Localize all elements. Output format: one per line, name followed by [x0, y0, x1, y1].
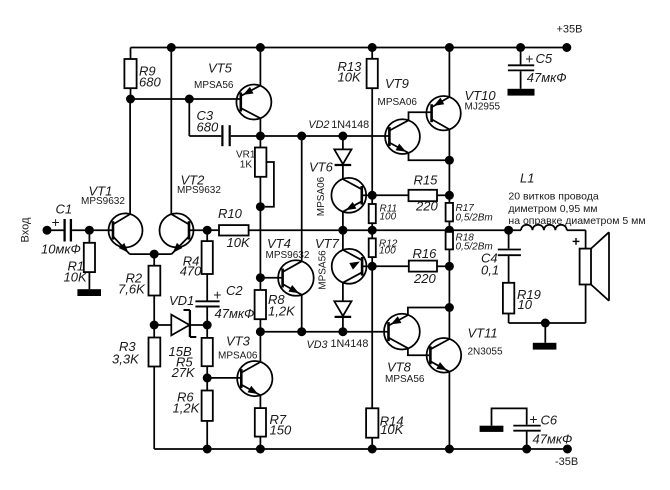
svg-text:MPSA56: MPSA56	[194, 80, 234, 91]
resistor R4	[180, 230, 213, 300]
label VT7	[315, 236, 340, 290]
wire VD2 bias rail (y=136)	[260, 135, 389, 137]
resistor R16	[372, 246, 449, 286]
node VT9 emitter / VT10 collector	[445, 156, 454, 165]
label VT3	[218, 334, 258, 362]
svg-text:47мкФ: 47мкФ	[215, 306, 255, 321]
node VR1 bottom	[256, 202, 265, 211]
svg-text:+: +	[529, 411, 537, 427]
wire VT6 bias to R15 (y=195.3)	[372, 194, 408, 196]
svg-text:MPSA06: MPSA06	[378, 97, 418, 108]
node VD2 anode	[338, 132, 347, 141]
node output / L1 / C4	[504, 226, 513, 235]
node C1/R1/VT1 junction	[85, 226, 94, 235]
wire +35V top bus	[131, 47, 567, 49]
node VT6/VT7 mid rail	[338, 226, 347, 235]
label VT4	[266, 236, 310, 261]
wire bias column x=301.7 (VD2 node to VT4 collector)	[301, 136, 303, 261]
node input terminal	[43, 226, 52, 235]
wire VT10 collector node to R17 node	[448, 160, 450, 195]
svg-text:VT4: VT4	[267, 236, 291, 251]
label VT9	[378, 76, 418, 108]
transistor VT10	[426, 48, 460, 161]
svg-text:R15: R15	[414, 173, 439, 188]
node top bus / C5	[516, 43, 525, 52]
svg-text:680: 680	[139, 75, 161, 90]
resistor R8	[255, 278, 296, 332]
svg-text:220: 220	[415, 199, 438, 214]
ground under R1	[77, 289, 101, 296]
label VT8	[385, 360, 425, 386]
svg-text:+: +	[525, 51, 533, 67]
transistor VT4	[260, 260, 313, 332]
node R9 bottom	[126, 95, 135, 104]
transistor VT2	[154, 48, 207, 255]
resistor R12	[369, 230, 398, 266]
resistor R3	[112, 325, 160, 367]
node R15 / R17 / VT10 collector	[445, 191, 454, 200]
svg-text:VT5: VT5	[208, 61, 233, 76]
resistor R5	[171, 325, 213, 380]
svg-text:диметром 0,95 мм: диметром 0,95 мм	[508, 203, 597, 215]
trimmer VR1	[236, 136, 274, 207]
ground near C6	[480, 426, 504, 432]
node VT2 base / R10 / R4	[203, 226, 212, 235]
label VT11	[468, 326, 503, 358]
node top bus / VT2 collector	[167, 43, 176, 52]
svg-text:MPSA56: MPSA56	[385, 374, 425, 385]
transistor VT7	[332, 230, 373, 301]
svg-text:27K: 27K	[171, 365, 196, 380]
svg-text:100: 100	[379, 246, 396, 257]
wire R3 drop to bottom bus	[153, 367, 155, 450]
wire R9-bottom to VT5 base (y=99)	[131, 98, 241, 100]
svg-text:150: 150	[270, 423, 292, 438]
resistor R6	[173, 378, 213, 449]
wire speaker return (y=323)	[509, 322, 586, 324]
svg-text:+35В: +35В	[557, 24, 583, 36]
capacitor C1	[41, 202, 113, 257]
svg-text:VT9: VT9	[385, 76, 409, 91]
resistor R1	[64, 230, 96, 289]
svg-text:470: 470	[180, 264, 202, 279]
svg-text:VT3: VT3	[226, 334, 251, 349]
svg-text:0,5/2Вт: 0,5/2Вт	[456, 213, 493, 224]
wire VR1/VT4/R8 column x=260.4	[259, 207, 261, 278]
node top bus / VT5 emitter	[256, 43, 265, 52]
svg-text:VT8: VT8	[387, 360, 412, 375]
label VT10	[465, 88, 501, 113]
svg-text:10K: 10K	[380, 422, 404, 437]
svg-text:2N3055: 2N3055	[468, 347, 503, 358]
svg-text:7,6K: 7,6K	[118, 281, 146, 296]
resistor R9	[124, 48, 161, 100]
node VT6 base / R13 / R11 / R15	[368, 191, 377, 200]
node VD3 cathode / lower rail	[338, 327, 347, 336]
svg-text:MPSA06: MPSA06	[218, 351, 258, 362]
wire R18 node to VT8 emitter node	[448, 266, 450, 307]
wire speaker top drop	[585, 230, 587, 248]
capacitor C5	[508, 48, 567, 89]
inductor L1	[508, 170, 645, 230]
resistor R18	[446, 230, 493, 266]
wire -35V bottom bus	[154, 448, 563, 450]
label VT6	[309, 160, 334, 217]
node VD1 / C2 / R5	[203, 321, 212, 330]
node bus / R7	[256, 445, 265, 454]
svg-text:3,3K: 3,3K	[112, 352, 140, 367]
transistor VT8	[384, 308, 449, 356]
svg-text:C2: C2	[226, 283, 243, 298]
capacitor C2	[195, 283, 254, 325]
node top bus / VT10 emitter	[445, 43, 454, 52]
svg-text:10K: 10K	[338, 70, 362, 85]
svg-text:MPS9632: MPS9632	[177, 185, 221, 196]
wire lower bias rail (y=331.7)	[260, 331, 388, 333]
svg-text:VD3: VD3	[307, 339, 328, 351]
wire output rail after coil	[567, 229, 586, 231]
svg-text:10K: 10K	[227, 235, 251, 250]
svg-text:1N4148: 1N4148	[331, 338, 369, 350]
svg-text:MPSA06: MPSA06	[316, 176, 327, 216]
ground under C5	[508, 89, 535, 96]
svg-text:VT6: VT6	[309, 160, 334, 175]
node x301 top	[297, 132, 306, 141]
resistor R15	[409, 173, 450, 214]
label VT1	[81, 184, 125, 208]
svg-text:C6: C6	[541, 413, 558, 428]
node R11/R12 mid rail	[368, 226, 377, 235]
resistor R19	[503, 283, 541, 323]
svg-text:1N4148: 1N4148	[331, 119, 369, 131]
node R16 / R18	[445, 262, 454, 271]
label VT5	[194, 61, 234, 92]
svg-text:VD1: VD1	[169, 293, 194, 308]
svg-text:VT11: VT11	[468, 326, 498, 341]
svg-text:220: 220	[413, 271, 436, 286]
capacitor C3	[189, 99, 260, 146]
wire input to C1	[47, 229, 64, 231]
svg-text:0,1: 0,1	[481, 263, 499, 278]
transistor VT1	[109, 99, 155, 254]
svg-text:C5: C5	[536, 51, 553, 66]
node VT4 emitter / lower rail	[297, 327, 306, 336]
svg-text:1K: 1K	[240, 160, 253, 171]
node VT4 base	[256, 273, 265, 282]
node VT8 emitter / output column	[445, 303, 454, 312]
svg-text:+: +	[52, 214, 60, 230]
node speaker return / ground	[541, 319, 550, 328]
svg-text:1,2K: 1,2K	[173, 401, 201, 416]
svg-text:10K: 10K	[64, 270, 88, 285]
svg-text:20 витков провода: 20 витков провода	[508, 191, 598, 203]
node emitters VT1/VT2	[150, 250, 159, 259]
svg-text:L1: L1	[520, 170, 534, 185]
node output rail	[445, 226, 454, 235]
svg-text:MJ2955: MJ2955	[465, 102, 501, 113]
transistor VT3	[207, 332, 272, 408]
svg-text:Вход: Вход	[20, 217, 32, 242]
resistor R2	[118, 254, 160, 325]
diode VD3	[307, 301, 369, 351]
wire speaker bottom drop	[585, 285, 587, 324]
wire mid output rail (y=230.2)	[249, 229, 521, 231]
node VT3 collector / lower rail	[256, 327, 265, 336]
node C3 tap	[185, 95, 194, 104]
svg-text:1,2K: 1,2K	[268, 303, 296, 318]
node bus / VT11 emitter	[445, 445, 454, 454]
transistor VT9	[385, 112, 449, 160]
svg-text:10: 10	[518, 297, 533, 312]
label Вход	[20, 217, 32, 242]
svg-text:MPS9632: MPS9632	[266, 250, 310, 261]
svg-text:10мкФ: 10мкФ	[41, 242, 81, 257]
speaker	[573, 232, 609, 301]
terminal +35V	[557, 24, 583, 53]
label VT2	[177, 173, 221, 197]
node VT5 collector / C3 / VR1	[256, 132, 265, 141]
svg-text:680: 680	[197, 120, 219, 135]
svg-text:47мкФ: 47мкФ	[533, 432, 573, 447]
node VT7 base / R12 / R16	[368, 262, 377, 271]
node R5/R6/VT3 base	[203, 373, 212, 382]
svg-text:100: 100	[380, 212, 397, 223]
node bus / R14	[368, 445, 377, 454]
svg-text:+: +	[213, 286, 221, 302]
svg-text:VT7: VT7	[315, 236, 340, 251]
capacitor C4	[481, 230, 521, 283]
ground speaker	[533, 323, 557, 350]
node top bus / R13	[368, 43, 377, 52]
node bottom bus / C6	[522, 445, 531, 454]
svg-text:на оправке диаметром 5 мм: на оправке диаметром 5 мм	[508, 215, 645, 227]
node bus / R6	[203, 445, 212, 454]
transistor VT11	[427, 308, 462, 450]
capacitor C6	[492, 408, 573, 449]
svg-text:C1: C1	[56, 202, 73, 217]
svg-text:47мкФ: 47мкФ	[527, 70, 567, 85]
resistor R13	[338, 48, 378, 196]
resistor R7	[255, 408, 292, 449]
resistor R11	[369, 195, 397, 230]
svg-text:VD2: VD2	[308, 119, 329, 131]
terminal -35V	[555, 445, 578, 469]
resistor R14	[366, 266, 405, 449]
transistor VT5	[236, 48, 271, 137]
zener diode VD1	[154, 293, 207, 359]
diode VD2	[308, 119, 369, 179]
resistor R17	[446, 195, 493, 230]
node R2/R3/VD1	[150, 321, 159, 330]
svg-text:R16: R16	[413, 246, 438, 261]
transistor VT6	[331, 178, 372, 230]
svg-text:-35В: -35В	[555, 456, 578, 468]
svg-text:MPSA56: MPSA56	[318, 250, 329, 290]
svg-text:MPS9632: MPS9632	[81, 196, 125, 207]
svg-text:R10: R10	[218, 206, 243, 221]
resistor R10	[207, 206, 251, 250]
